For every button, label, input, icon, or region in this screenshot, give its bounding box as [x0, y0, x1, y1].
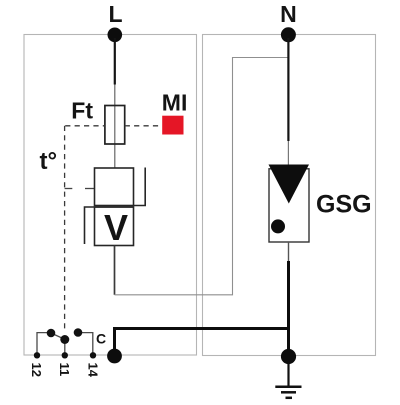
dashed thermal line vertical: [64, 126, 66, 330]
wire contact 14: [81, 333, 93, 353]
wire contact 12: [37, 333, 47, 353]
dashed link fuse to MI (left segment): [65, 125, 105, 127]
thermal tick to disconnector (right): [85, 188, 95, 190]
terminal 11: [62, 352, 68, 358]
svg-text:V: V: [104, 207, 128, 248]
GSG dot electrode: [271, 219, 285, 233]
fuse Ft: [105, 106, 125, 145]
svg-text:N: N: [280, 1, 297, 27]
contact dot 14 side: [74, 328, 83, 337]
thermal tick to disconnector (left): [65, 188, 73, 190]
switch blade 11: [51, 333, 65, 339]
disconnector bracket right: [134, 168, 146, 206]
enclosure box right (GSG module): [203, 35, 376, 356]
wire varistor to N (thin connector): [115, 58, 289, 295]
wire contact 11: [64, 339, 66, 352]
svg-text:GSG: GSG: [316, 191, 372, 219]
wire L internal to fuse and disconnector (thin): [114, 85, 116, 169]
wire GSG to earth (thick): [287, 261, 290, 356]
wire L external (thick): [114, 38, 116, 85]
terminal L: [108, 28, 123, 43]
svg-text:MI: MI: [162, 90, 188, 116]
svg-text:14: 14: [85, 363, 100, 378]
wire N internal to GSG (thin): [287, 141, 289, 166]
terminal earth right (big dot): [281, 349, 296, 364]
terminal 14: [90, 352, 96, 358]
svg-text:C: C: [96, 331, 106, 347]
ground bar 2: [281, 391, 296, 394]
dashed link fuse to MI (right segment): [125, 125, 162, 127]
gas discharge tube GSG box: [269, 169, 309, 242]
ground bar 1: [275, 386, 301, 389]
indicator MI (red square): [162, 116, 183, 135]
wire N external (thick): [287, 38, 289, 141]
contact dot 12 side: [47, 329, 56, 338]
svg-text:t°: t°: [40, 148, 58, 175]
contact dot common: [60, 335, 69, 344]
wire GSG bottom (thin): [288, 242, 290, 261]
svg-text:12: 12: [29, 363, 44, 377]
svg-text:L: L: [108, 1, 122, 27]
wire varistor bottom: [114, 246, 116, 295]
varistor bracket left: [85, 207, 134, 244]
wire PE bus (thick): [115, 329, 289, 357]
thermal disconnector box: [95, 168, 134, 206]
svg-text:11: 11: [57, 363, 72, 377]
terminal PE left (big dot): [107, 349, 122, 364]
terminal 12: [34, 352, 40, 358]
svg-text:Ft: Ft: [71, 98, 93, 124]
ground stub: [287, 364, 289, 387]
terminal N: [281, 27, 296, 42]
enclosure box left (varistor module): [24, 35, 197, 356]
ground bar 3: [286, 397, 293, 400]
GSG triangle electrode: [269, 165, 310, 204]
varistor V box: [95, 207, 134, 246]
